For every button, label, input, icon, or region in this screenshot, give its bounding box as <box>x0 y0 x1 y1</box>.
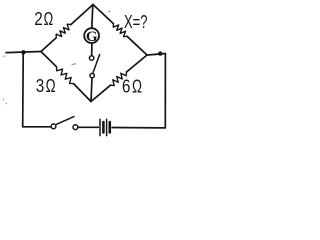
stray speck left margin <box>3 56 5 57</box>
switch K1 terminal 1 <box>51 124 56 129</box>
stray specks bottom left <box>3 99 8 105</box>
switch K2 blade <box>93 55 99 73</box>
battery B1 plate long 2 <box>106 119 108 135</box>
stray speck above 3ohm resistor <box>72 63 76 66</box>
switch K2 galvanometer key terminal 1 <box>89 56 93 60</box>
resistor 6Ω <box>111 72 127 86</box>
galvanometer G <box>84 28 99 45</box>
wire: bottom-right diagonal upper segment <box>127 55 148 72</box>
wire: battery to key <box>78 126 98 128</box>
wire: key to bottom vertex <box>91 78 92 102</box>
wire: right horizontal lead <box>147 54 165 55</box>
wire: galvanometer to key <box>91 44 93 56</box>
resistor 2Ω <box>56 24 71 38</box>
svg-text:Ω: Ω <box>132 76 142 96</box>
wire: bottom-left diagonal upper segment <box>41 52 57 67</box>
battery B1 plate short 2 <box>109 122 112 132</box>
wire: middle branch top (apex to galvanometer) <box>92 5 93 28</box>
svg-text:Ω: Ω <box>44 9 54 29</box>
battery B1 plate short 1 <box>102 122 105 132</box>
svg-text:X=?: X=? <box>124 12 148 32</box>
node B junction dot (right) <box>158 51 162 55</box>
wire: top-right diagonal lower segment <box>127 36 147 55</box>
svg-text:3: 3 <box>36 76 45 96</box>
wire: bottom-left diagonal lower segment <box>74 84 92 102</box>
label X=? <box>124 12 148 32</box>
resistor X <box>113 24 127 37</box>
node A junction dot (left) <box>21 50 25 54</box>
svg-text:6: 6 <box>122 76 130 96</box>
resistor 3Ω <box>57 67 74 84</box>
switch K1 blade <box>57 117 75 125</box>
wire: top-right diagonal upper segment <box>93 5 114 24</box>
switch K2 terminal 2 <box>90 73 94 77</box>
battery B1 plate long 1 <box>99 119 101 135</box>
svg-text:G: G <box>86 29 98 45</box>
wire: left horizontal lead <box>6 52 41 53</box>
wire: top-left diagonal upper segment <box>71 5 93 25</box>
wire: left vertical rail <box>23 53 51 127</box>
svg-text:2: 2 <box>34 9 43 29</box>
wire: right vertical rail <box>112 54 165 128</box>
wire: top-left diagonal lower segment <box>41 38 56 52</box>
svg-text:Ω: Ω <box>46 76 56 96</box>
wire: bottom-right diagonal lower segment <box>91 85 111 101</box>
stray speck near X diagonal <box>108 11 110 13</box>
label 2Ω <box>34 9 53 29</box>
label 6Ω <box>122 76 142 96</box>
switch K1 battery key terminal 2 <box>73 125 78 130</box>
label 3Ω <box>36 76 56 96</box>
